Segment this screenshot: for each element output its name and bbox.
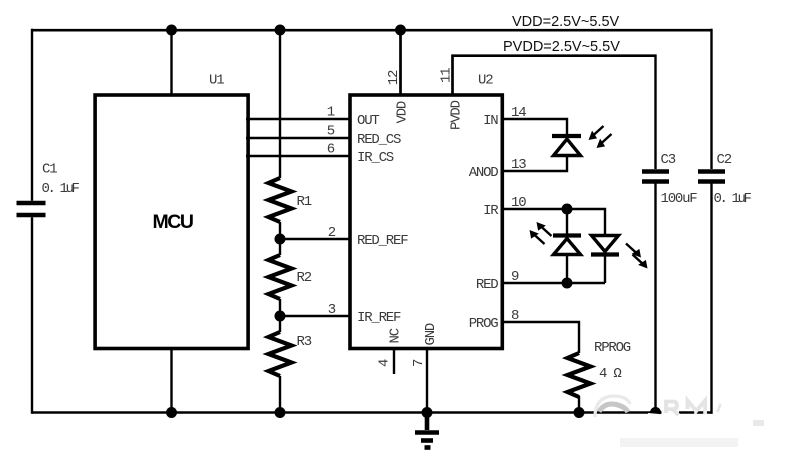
wire pin 9 RED xyxy=(501,282,605,284)
resistor R1 xyxy=(269,178,292,222)
svg-text:14: 14 xyxy=(511,105,526,121)
junction IR_REF node xyxy=(275,311,286,322)
svg-text:12: 12 xyxy=(386,70,402,85)
wire IR junction down xyxy=(566,209,568,234)
LED D3 (RED) xyxy=(591,236,619,255)
junction C3-rail xyxy=(650,407,661,418)
svg-text:RED_CS: RED_CS xyxy=(357,132,401,148)
svg-text:IR: IR xyxy=(483,203,499,219)
wire pin 14 IN xyxy=(501,119,567,134)
svg-text:VDD: VDD xyxy=(395,101,411,123)
D2 emitted light arrows xyxy=(530,222,552,244)
capacitor C3 xyxy=(642,172,669,182)
capacitor C1 xyxy=(17,203,46,215)
MCU U1 box xyxy=(95,95,248,349)
svg-text:C1: C1 xyxy=(42,162,57,178)
svg-text:6: 6 xyxy=(327,142,335,158)
svg-text:2: 2 xyxy=(328,225,336,241)
svg-text:7: 7 xyxy=(411,359,427,367)
wire D2 to RED node xyxy=(566,254,568,283)
junction MCU-VDD xyxy=(166,25,177,36)
svg-text:R1: R1 xyxy=(297,194,312,210)
wire D3 to RED rail xyxy=(604,254,606,283)
svg-text:10: 10 xyxy=(511,195,526,211)
wire resistor chain vertical xyxy=(279,29,281,414)
svg-text:GND: GND xyxy=(423,323,439,345)
svg-text:RPROG: RPROG xyxy=(594,340,631,356)
junction RPROG-rail xyxy=(574,407,585,418)
junction RED-D2 xyxy=(562,278,573,289)
photodiode D1 xyxy=(552,136,581,156)
wire OUT (MCU to U2 pin1) xyxy=(246,118,351,120)
svg-text:100uF: 100uF xyxy=(661,191,698,207)
wire pin 11 PVDD xyxy=(451,54,454,95)
svg-text:C2: C2 xyxy=(717,152,732,168)
wire PVDD rail xyxy=(453,54,656,57)
svg-text:RED_REF: RED_REF xyxy=(357,233,408,249)
svg-text:OUT: OUT xyxy=(357,113,379,129)
svg-text:VDD=2.5V~5.5V: VDD=2.5V~5.5V xyxy=(512,14,620,30)
svg-text:ANOD: ANOD xyxy=(469,165,499,181)
D3 emitted light arrows xyxy=(626,244,648,269)
svg-text:0. 1uF: 0. 1uF xyxy=(42,181,80,197)
svg-text:1: 1 xyxy=(327,105,335,121)
wire RED_CS (MCU to U2 pin5) xyxy=(246,137,351,139)
svg-text:IR_REF: IR_REF xyxy=(357,310,401,326)
svg-text:9: 9 xyxy=(511,269,519,285)
junction pin12-VDD xyxy=(395,25,406,36)
svg-text:U1: U1 xyxy=(209,73,224,89)
junction chain-VDD xyxy=(275,25,286,36)
ground symbol xyxy=(415,413,439,448)
junction IR-D2 xyxy=(562,204,573,215)
wire pin 10 IR xyxy=(501,209,605,236)
wire pin 7 GND xyxy=(426,349,428,413)
wire VDD rail xyxy=(32,29,713,32)
resistor R2 xyxy=(269,255,292,299)
svg-text:R2: R2 xyxy=(297,270,312,286)
svg-text:C3: C3 xyxy=(661,152,676,168)
svg-text:RED: RED xyxy=(476,277,498,293)
wire D1 to pin 13 xyxy=(501,155,567,171)
junction chain-GND xyxy=(275,407,286,418)
LED D2 (IR) xyxy=(553,236,581,255)
svg-text:4: 4 xyxy=(377,359,393,367)
svg-text:5: 5 xyxy=(327,124,335,140)
svg-text:8: 8 xyxy=(511,308,519,324)
svg-text:PROG: PROG xyxy=(469,316,499,332)
svg-text:3: 3 xyxy=(328,302,336,318)
resistor R3 xyxy=(269,332,292,376)
wire RPROG to rail xyxy=(578,396,580,413)
junction pin7-rail xyxy=(422,407,433,418)
wire MCU top supply xyxy=(170,30,172,95)
svg-text:IR_CS: IR_CS xyxy=(357,150,394,166)
wire left vertical (C1 branch) xyxy=(31,29,33,414)
svg-text:PVDD: PVDD xyxy=(449,100,465,130)
junction RED_REF node xyxy=(275,234,286,245)
svg-text:11: 11 xyxy=(439,68,455,83)
wire C3 vertical xyxy=(654,54,656,413)
wire pin 8 PROG xyxy=(501,322,579,353)
wire ground rail xyxy=(32,411,713,414)
svg-text:4 Ω: 4 Ω xyxy=(599,366,621,382)
svg-text:MCU: MCU xyxy=(153,211,193,233)
svg-text:PVDD=2.5V~5.5V: PVDD=2.5V~5.5V xyxy=(503,39,620,55)
svg-text:IN: IN xyxy=(483,113,498,129)
svg-text:R3: R3 xyxy=(297,334,312,350)
wire pin 12 VDD xyxy=(399,30,402,95)
IC U2 box xyxy=(350,95,502,349)
wire pin 4 NC stub xyxy=(393,349,395,375)
wire IR_CS (MCU to U2 pin6) xyxy=(246,155,351,157)
svg-text:NC: NC xyxy=(388,328,404,343)
capacitor C2 xyxy=(698,172,725,182)
svg-text:U2: U2 xyxy=(478,73,493,89)
svg-text:0. 1uF: 0. 1uF xyxy=(714,191,752,207)
watermark xyxy=(595,396,764,447)
junction MCU-GND xyxy=(166,407,177,418)
resistor RPROG xyxy=(568,353,591,397)
wire C2 vertical xyxy=(710,29,712,414)
svg-text:13: 13 xyxy=(511,157,526,173)
wire IR_REF (to U2 pin3) xyxy=(280,315,351,317)
wire MCU bottom ground xyxy=(170,349,172,413)
D1 incoming light arrows xyxy=(589,126,612,148)
wire RED_REF (to U2 pin2) xyxy=(280,238,351,240)
